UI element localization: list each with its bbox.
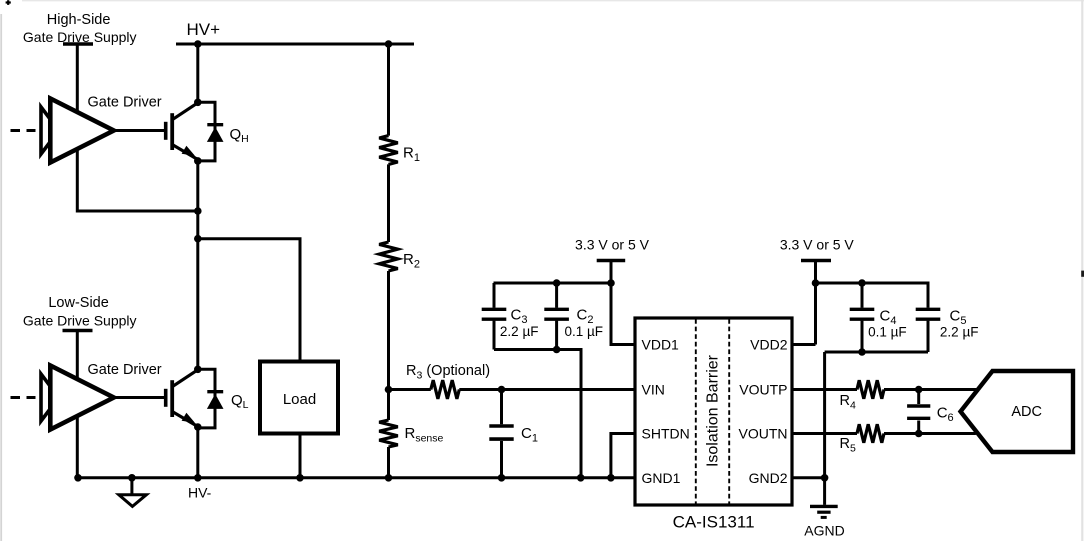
svg-text:0.1 µF: 0.1 µF (565, 324, 604, 339)
svg-text:Low-Side: Low-Side (48, 295, 108, 311)
svg-text:3.3 V or 5 V: 3.3 V or 5 V (575, 236, 650, 252)
svg-text:Gate Driver: Gate Driver (88, 94, 162, 110)
svg-text:VIN: VIN (642, 382, 665, 398)
svg-text:VDD1: VDD1 (642, 337, 680, 353)
svg-text:Gate Drive Supply: Gate Drive Supply (23, 29, 137, 45)
svg-text:Isolation Barrier: Isolation Barrier (705, 354, 722, 467)
svg-text:ADC: ADC (1011, 404, 1042, 420)
svg-text:CA-IS1311: CA-IS1311 (673, 513, 755, 532)
svg-text:Gate Drive Supply: Gate Drive Supply (23, 313, 137, 329)
svg-text:HV-: HV- (188, 484, 212, 500)
svg-text:GND1: GND1 (642, 470, 681, 486)
svg-text:SHTDN: SHTDN (642, 426, 690, 442)
svg-text:2.2 µF: 2.2 µF (940, 325, 979, 340)
svg-text:VDD2: VDD2 (750, 337, 788, 353)
svg-text:GND2: GND2 (749, 470, 788, 486)
svg-text:Gate Driver: Gate Driver (88, 362, 162, 378)
svg-text:VOUTN: VOUTN (739, 426, 788, 442)
svg-text:VOUTP: VOUTP (739, 382, 787, 398)
svg-text:High-Side: High-Side (47, 12, 111, 28)
svg-text:2.2 µF: 2.2 µF (500, 324, 539, 339)
svg-text:3.3 V or 5 V: 3.3 V or 5 V (780, 236, 855, 252)
svg-text:Load: Load (283, 391, 316, 408)
svg-text:AGND: AGND (804, 523, 844, 539)
svg-text:HV+: HV+ (187, 20, 221, 39)
svg-text:0.1 µF: 0.1 µF (868, 325, 907, 340)
